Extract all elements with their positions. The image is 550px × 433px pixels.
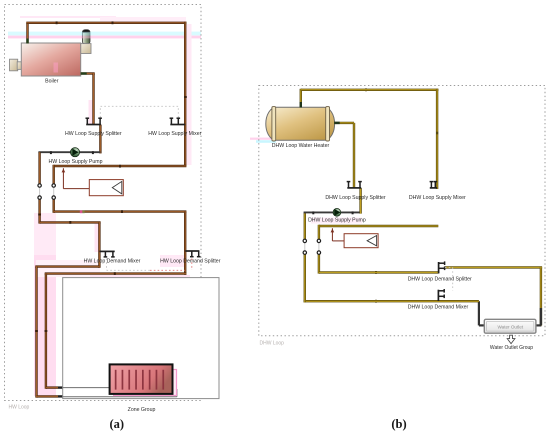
wire left supply vertical upper segment	[53, 165, 55, 186]
HW Loop boundary (dashed box)	[5, 5, 202, 401]
svg-text:(a): (a)	[110, 417, 125, 431]
wire DHW mixer-leg vertical lower	[318, 253, 320, 274]
ghost segment between nodes (DHW mixer leg)	[318, 241, 320, 252]
svg-text:DHW Loop: DHW Loop	[260, 341, 285, 347]
HW Loop Supply Splitter label	[65, 131, 122, 137]
ghost segment between nodes (DHW pump leg)	[304, 241, 306, 252]
Zone Group box	[63, 278, 219, 399]
wire DHW pump line horizontal (dark)	[304, 211, 361, 214]
Water Outlet box	[484, 319, 536, 333]
svg-text:HW Loop Demand Mixer: HW Loop Demand Mixer	[84, 258, 141, 264]
Water Outlet label	[497, 324, 523, 329]
svg-text:DHW Loop Supply Pump: DHW Loop Supply Pump	[308, 218, 366, 224]
DHW Loop Demand Splitter symbol	[439, 261, 445, 273]
demand branch dashed connector	[107, 259, 192, 271]
wire top horizontal run	[26, 22, 186, 24]
radiator (zone equipment)	[110, 364, 173, 394]
Zone Group label	[128, 407, 156, 413]
DHW Loop Demand Mixer label	[408, 304, 469, 310]
HW Loop Supply Pump label	[49, 159, 103, 165]
wire vertical into demand splitter	[184, 212, 186, 275]
wire zone return vertical	[35, 267, 37, 398]
HW Loop Demand Mixer symbol	[99, 251, 114, 257]
wire DHW demand feed horizontal	[319, 271, 439, 273]
wire pump line horizontal (dark)	[38, 151, 100, 154]
HW Loop Supply Mixer label	[148, 131, 201, 137]
Water Outlet Group label	[490, 345, 533, 351]
DHW Loop label	[260, 341, 285, 347]
wire right vertical to DHW supply mixer	[436, 89, 438, 189]
wire water outlet return horizontal	[304, 300, 479, 302]
boiler label	[45, 78, 59, 84]
DHW node pair right	[317, 239, 320, 254]
HW Loop Demand Mixer label	[84, 258, 141, 264]
svg-text:DHW Loop Demand Mixer: DHW Loop Demand Mixer	[408, 304, 469, 310]
wire vertical into DHW supply splitter	[353, 123, 355, 188]
svg-text:HW Loop Supply Splitter: HW Loop Supply Splitter	[65, 131, 122, 137]
wire zone inlet horizontal	[46, 386, 66, 388]
wire demand feed horizontal	[54, 210, 187, 212]
water heater label	[272, 143, 330, 149]
svg-text:Water Outlet Group: Water Outlet Group	[490, 345, 533, 351]
setpoint manager (pipe component with triangle)	[62, 168, 124, 196]
node pair right	[52, 184, 55, 200]
wire boiler bottom outlet	[81, 72, 95, 74]
pump HW Loop Supply Pump	[70, 148, 79, 157]
wire vertical through demand mixer	[98, 222, 100, 267]
DHW Loop Supply Pump label	[308, 218, 366, 224]
DHW Loop Supply Mixer label	[409, 195, 466, 201]
wire zone return horizontal upper	[35, 265, 99, 267]
wire boiler top outlet vertical	[26, 23, 28, 44]
flow tick marks on DHW pipes (decorative)	[365, 88, 377, 302]
DHW node pair left	[303, 239, 306, 254]
supply branch dashed connector (splitter to mixer)	[100, 106, 178, 117]
wire demand branch horizontal	[45, 272, 187, 274]
HW Loop Supply Mixer symbol	[170, 118, 186, 124]
svg-text:HW Loop: HW Loop	[9, 405, 30, 411]
DHW Loop boundary (dashed box)	[259, 86, 545, 336]
wire demand return horizontal	[40, 221, 101, 223]
water heater DHW Loop Water Heater	[266, 107, 335, 141]
wire DHW mixer-leg vertical upper	[318, 225, 320, 242]
svg-text:Zone Group: Zone Group	[128, 407, 156, 413]
ghost segment between nodes (left supply vertical)	[53, 186, 55, 198]
wire DHW pump-leg vertical upper	[304, 212, 306, 241]
svg-text:DHW Loop Demand Splitter: DHW Loop Demand Splitter	[408, 277, 472, 283]
svg-text:DHW Loop Supply Mixer: DHW Loop Supply Mixer	[409, 195, 466, 201]
node pair left	[38, 184, 41, 200]
zone connector inlet (gray)	[63, 387, 110, 389]
wire DHW splitter outlet vertical	[359, 188, 361, 214]
HW Loop Demand Splitter symbol	[185, 251, 200, 257]
pump DHW Loop Supply Pump	[333, 209, 341, 217]
water outlet arrow	[507, 335, 515, 343]
wire vertical down to water outlet box	[536, 267, 542, 326]
wire DHW demand branch to outlet	[445, 266, 542, 268]
svg-text:HW Loop Supply Mixer: HW Loop Supply Mixer	[148, 131, 201, 137]
HW Loop Supply Splitter symbol	[86, 118, 102, 124]
wire right vertical to supply mixer	[184, 22, 186, 166]
svg-text:Water Outlet: Water Outlet	[497, 324, 523, 329]
zone connector return (gray)	[63, 389, 177, 397]
wire vertical into supply splitter	[92, 74, 94, 125]
jpeg chroma artifact bands (decorative)	[8, 16, 362, 396]
wire DHW top horizontal run	[301, 89, 439, 91]
DHW Loop Demand Splitter label	[408, 277, 472, 283]
wire tank top outlet vertical	[300, 89, 302, 108]
caption (a)	[110, 417, 125, 431]
HW Loop Demand Splitter label	[160, 258, 221, 264]
DHW Loop Demand Mixer symbol	[438, 289, 444, 301]
wire DHW supply return horizontal	[319, 225, 438, 227]
svg-text:DHW Loop Water Heater: DHW Loop Water Heater	[272, 143, 330, 149]
wire water outlet return vertical	[479, 301, 485, 326]
radiator selection highlight (pink)	[114, 370, 177, 396]
wire left pump vertical upper segment	[38, 152, 40, 186]
svg-text:HW Loop Demand Splitter: HW Loop Demand Splitter	[160, 258, 221, 264]
svg-text:(b): (b)	[391, 417, 406, 431]
wire tank right outlet horizontal	[334, 122, 354, 124]
DHW setpoint manager (pipe component with triangle)	[331, 228, 379, 248]
DHW demand branch dashed connector	[445, 267, 453, 290]
DHW Loop Supply Splitter label	[325, 195, 386, 201]
flow tick marks on HW pipes (decorative)	[35, 21, 187, 332]
caption (b)	[391, 417, 406, 431]
wire left supply vertical lower segment	[53, 198, 55, 213]
ghost segment between nodes (pump vertical)	[39, 186, 41, 198]
svg-text:DHW Loop Supply Splitter: DHW Loop Supply Splitter	[325, 195, 386, 201]
wire splitter outlet vertical	[99, 125, 101, 154]
wire left pump vertical lower segment	[38, 198, 40, 224]
boiler Boiler	[10, 30, 92, 76]
wire demand branch vertical down	[45, 274, 47, 389]
svg-text:Boiler: Boiler	[45, 78, 59, 84]
DHW Loop Supply Mixer symbol	[430, 182, 438, 188]
HW Loop label	[9, 405, 30, 411]
DHW Loop Supply Splitter symbol	[347, 182, 362, 188]
wire zone return bottom horizontal	[37, 395, 67, 397]
wire supply return horizontal	[54, 165, 187, 167]
svg-text:HW Loop Supply Pump: HW Loop Supply Pump	[49, 159, 103, 165]
wire DHW pump-leg vertical lower	[304, 253, 306, 303]
